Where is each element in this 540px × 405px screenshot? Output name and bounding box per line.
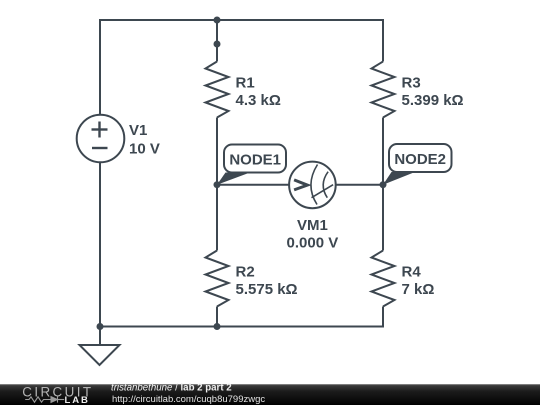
node NODE2 label box — [389, 144, 452, 172]
svg-text:R1: R1 — [236, 74, 255, 91]
wire bottom horizontal + right bottom corner — [100, 307, 383, 327]
svg-text:R3: R3 — [402, 74, 421, 91]
svg-text:5.399 kΩ: 5.399 kΩ — [402, 92, 464, 109]
voltmeter VM1 — [289, 162, 336, 209]
wire middle column mid — [216, 118, 218, 251]
wire voltmeter horizontal — [217, 184, 383, 186]
node NODE1 pointer wedge — [217, 173, 250, 185]
svg-text:VM1: VM1 — [297, 217, 328, 234]
svg-text:7 kΩ: 7 kΩ — [402, 281, 435, 298]
svg-text:LAB: LAB — [65, 395, 90, 405]
ground stem — [99, 327, 101, 346]
wire left column lower — [99, 162, 101, 327]
junction dot bottom middle — [214, 323, 221, 330]
wire top horizontal + left/right top corners — [100, 20, 383, 115]
svg-text:http://circuitlab.com/cuqb8u79: http://circuitlab.com/cuqb8u799zwgc — [112, 394, 265, 405]
svg-text:4.3 kΩ: 4.3 kΩ — [236, 92, 281, 109]
junction dot top middle — [214, 17, 221, 24]
resistor R4 — [372, 251, 395, 307]
svg-text:NODE2: NODE2 — [394, 151, 446, 168]
node A junction NODE1 — [214, 181, 221, 188]
svg-text:tristanbethune / lab 2 part 2: tristanbethune / lab 2 part 2 — [111, 382, 232, 393]
svg-text:5.575 kΩ: 5.575 kΩ — [236, 281, 298, 298]
ground triangle — [80, 345, 120, 365]
junction dot middle column upper — [214, 41, 221, 48]
resistor R1 — [206, 62, 229, 118]
wire middle column bottom — [216, 307, 218, 327]
node NODE1 label box — [224, 145, 286, 173]
wire middle column top — [216, 20, 218, 62]
node NODE2 pointer wedge — [383, 172, 415, 185]
svg-text:10 V: 10 V — [129, 141, 160, 158]
resistor R3 — [372, 62, 395, 118]
svg-text:R2: R2 — [236, 263, 255, 280]
resistor R2 — [206, 251, 229, 307]
svg-text:V1: V1 — [129, 122, 147, 139]
footer bar — [0, 384, 540, 405]
svg-text:R4: R4 — [402, 263, 422, 280]
node B junction NODE2 — [380, 181, 387, 188]
footer logo squiggle resistor+diode — [25, 396, 64, 402]
voltage source V1 — [77, 115, 125, 163]
wire right column mid — [382, 118, 384, 251]
junction dot bottom left — [97, 323, 104, 330]
svg-text:0.000 V: 0.000 V — [287, 235, 339, 252]
svg-text:NODE1: NODE1 — [229, 152, 281, 169]
